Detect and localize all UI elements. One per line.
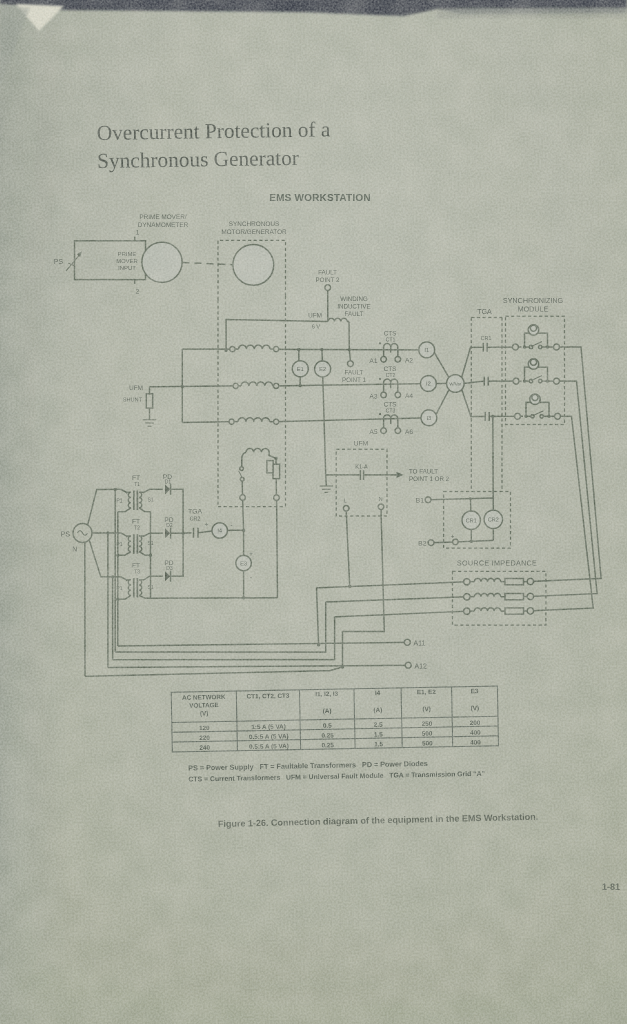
lamp row 2 — [528, 359, 538, 369]
terminal 1 of sync row 1 — [512, 344, 518, 350]
switch contact row 3 — [531, 415, 534, 418]
secondary return bus — [151, 512, 278, 599]
relay coil CR1 — [470, 499, 472, 511]
abbreviation notes — [188, 758, 485, 784]
wire grid C row to source impedance C — [335, 611, 464, 617]
wire grid B drop — [115, 602, 326, 652]
terminal A6 — [395, 428, 401, 434]
voltmeter E2 — [321, 350, 324, 361]
terminal A12 — [405, 662, 411, 668]
shaft coupling (dashed) — [183, 263, 233, 265]
left bundle vertical to A12 — [107, 533, 109, 668]
primary return bus — [117, 512, 119, 646]
stator winding 1 — [230, 347, 235, 352]
wattmeter W/Var — [447, 375, 465, 393]
ammeter I1 — [419, 342, 435, 358]
synchronous generator module box (dashed) — [218, 240, 286, 300]
corner of underlying page (light triangle) — [0, 4, 64, 85]
switch contact row 1 — [529, 345, 532, 348]
terminal of sync row 3 — [515, 413, 521, 419]
fault point 1 terminal — [348, 361, 354, 367]
wire grid A row to source impedance A — [317, 582, 464, 588]
relay box (dashed) — [444, 492, 511, 549]
junction T1 feed — [114, 488, 117, 491]
left bundle vertical to C row — [112, 577, 114, 660]
wire I3 to W/Var meter — [436, 389, 449, 415]
junction T2 feed — [106, 531, 109, 534]
wire field left to switch — [242, 452, 246, 466]
ammeter I3 — [421, 410, 437, 426]
phase 1 bus — [279, 348, 419, 351]
power supply box PS (prime mover input) — [75, 241, 146, 280]
switch (field) — [240, 467, 244, 471]
terminal 1 of PS box — [134, 237, 136, 241]
transformer FT T3 — [116, 563, 162, 600]
title — [97, 117, 332, 173]
wire sync row 1 to grid A — [534, 347, 601, 581]
prime mover circle — [142, 242, 182, 282]
synchronizing module box (dashed) — [506, 316, 565, 424]
wire A11 row — [118, 642, 405, 646]
sync lamp circuit row 1 — [512, 325, 559, 350]
node fault tap junction — [348, 348, 351, 351]
wire sync row 3 to grid C — [534, 416, 593, 610]
left bundle vertical to B row — [114, 489, 116, 652]
wire PS to T2 feed — [92, 532, 121, 534]
label WINDING INDUCTIVE FAULT — [337, 296, 370, 318]
wire B2 row — [434, 541, 453, 544]
source impedance box (dashed) — [453, 571, 546, 625]
wire UFM N down and over to A12 — [343, 510, 385, 667]
sync lamp circuit row 3 — [515, 394, 561, 419]
wire neutral to winding 3 — [182, 421, 229, 424]
node E1 bottom junction — [299, 384, 302, 387]
wire PS to T1 feed — [88, 489, 121, 525]
wire grid C drop — [113, 617, 335, 660]
wire A12 row — [108, 665, 405, 667]
resistor UFM shunt — [149, 387, 151, 394]
ground at K1-A — [325, 475, 328, 486]
long neutral line at bottom — [85, 667, 343, 676]
wire I1 to W/Var meter — [434, 353, 449, 379]
wire field left terminal down to I4/E3 — [242, 500, 245, 555]
wire UFM L down to grid A row — [346, 511, 350, 586]
capacitor CR2 — [183, 532, 191, 534]
terminal A11 — [404, 639, 410, 645]
terminal A1 — [381, 357, 387, 363]
TGA module box (dashed) — [471, 318, 502, 492]
terminal A4 — [395, 392, 401, 398]
stator neutral bus — [181, 349, 183, 422]
field terminal left — [240, 495, 246, 501]
node E1 top junction — [297, 348, 300, 351]
lamp row 1 — [528, 325, 538, 335]
label PRIME MOVER / DYNAMOMETER — [138, 214, 189, 229]
winding inductive fault inductor — [226, 320, 328, 351]
capacitor line 3 — [485, 412, 489, 421]
lamp row 3 — [530, 394, 540, 404]
arrow to fault point — [397, 472, 404, 478]
UFM fault module box (dashed) — [336, 449, 387, 516]
wire E2 down to fault module row — [323, 377, 326, 475]
terminal A5 — [381, 428, 387, 434]
label SYNCHRONOUS MOTOR/GENERATOR — [221, 221, 287, 236]
wire W/Var to line 3 — [462, 389, 485, 416]
wire grid B row to source impedance B — [326, 597, 464, 602]
transformer FT T1 — [116, 475, 162, 512]
wire B1 to relays — [431, 498, 493, 500]
wire B1 riser — [492, 416, 494, 498]
field winding inductor — [246, 448, 269, 452]
sync lamp circuit row 2 — [513, 359, 560, 384]
wire I2 to W/Var meter — [436, 383, 446, 385]
label PRIME MOVER INPUT — [116, 252, 138, 272]
lamp bridge row 1 — [525, 333, 548, 347]
label SYNCHRONIZING MODULE — [503, 296, 564, 314]
ground (shunt) — [143, 420, 156, 426]
contact K1-A — [326, 474, 360, 476]
resistor (field discharge) — [267, 461, 273, 473]
wire W/Var to line 2 — [464, 381, 484, 383]
junction neutral/shunt — [181, 385, 184, 388]
label TO FAULT POINT 1 OR 2 — [409, 469, 450, 484]
voltmeter E1 — [298, 350, 300, 361]
capacitor line 2 — [484, 377, 488, 386]
transformer FT T2 — [116, 519, 162, 556]
capacitor CR1 line 1 — [483, 343, 487, 352]
wire field right to resistor — [269, 452, 276, 464]
wire PS to T3 feed — [89, 540, 121, 577]
terminal A2 — [395, 357, 401, 363]
junction T3 feed — [111, 575, 114, 578]
wire fault tap down to bus and fault point 1 — [349, 322, 350, 361]
node E2 top junction — [320, 348, 323, 351]
dark band at top (photo background above page edge) — [0, 0, 627, 18]
switch contact row 2 — [529, 379, 532, 382]
wire neutral to winding 1 — [182, 348, 230, 350]
phase 3 bus — [279, 418, 421, 422]
synchronous generator circle — [233, 245, 274, 286]
settings table — [171, 686, 498, 752]
wire grid A drop to A11 row — [317, 588, 319, 645]
wire fault point 2 to winding fault inductor — [327, 291, 329, 322]
wire neutral to winding 2 — [150, 385, 234, 388]
figure caption — [218, 812, 539, 829]
ammeter I2 — [421, 376, 437, 392]
wire field right terminal down — [276, 501, 279, 598]
field terminal right — [274, 495, 280, 501]
terminal A3 — [381, 392, 387, 398]
terminal 2 of PS box — [134, 280, 136, 284]
variac arrow on PS box — [66, 253, 81, 271]
stator winding 3 — [229, 419, 234, 424]
wire sync row 2 to grid B — [534, 381, 597, 596]
stator winding 2 — [233, 383, 238, 388]
switch row 1 — [525, 346, 530, 348]
terminal of sync row 2 — [513, 378, 519, 384]
junction B1 riser on line 3 — [491, 415, 494, 418]
phase 2 bus — [279, 384, 421, 386]
source impedance branch C — [464, 608, 534, 615]
wire PS neutral down — [84, 542, 86, 676]
source impedance branch A — [464, 578, 534, 585]
wire W/Var to line 1 — [462, 347, 483, 377]
relay coil CR2 — [492, 498, 494, 510]
terminal 4 — [554, 344, 560, 350]
source impedance branch B — [464, 593, 534, 600]
